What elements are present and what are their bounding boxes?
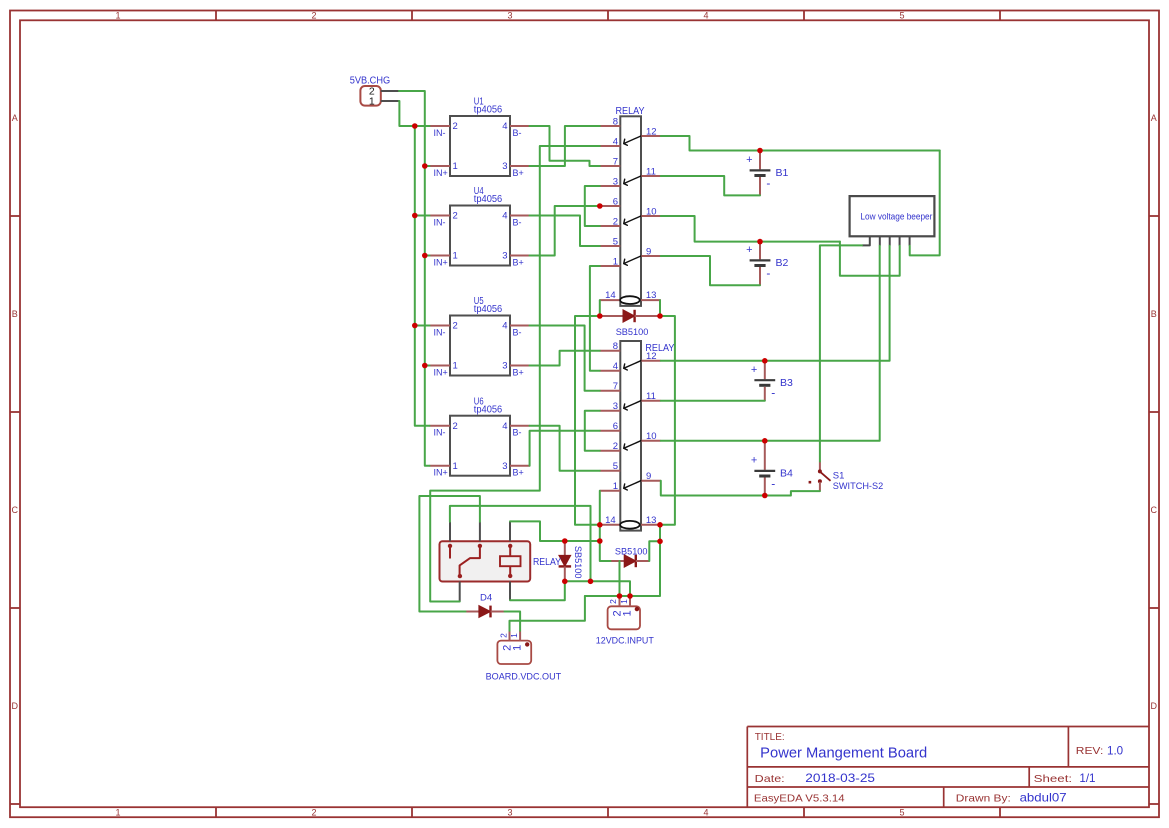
node junction — [762, 358, 768, 364]
svg-text:9: 9 — [646, 247, 651, 258]
pin 1 (beeper) — [862, 236, 870, 245]
wire IN+ branch U5 — [425, 365, 430, 367]
svg-text:1/1: 1/1 — [1079, 772, 1095, 785]
svg-text:2: 2 — [311, 807, 316, 817]
pin 14 (RELAY1) — [600, 299, 621, 301]
node junction — [762, 493, 768, 499]
svg-text:10: 10 — [646, 207, 657, 218]
wire 12VDC pin2 to diode2 anode — [619, 561, 621, 596]
pin 12 (RELAY2) — [641, 360, 661, 362]
wire 12V feed to BOARD pin2 — [510, 596, 585, 631]
svg-text:EasyEDA V5.3.14: EasyEDA V5.3.14 — [754, 793, 845, 805]
svg-text:11: 11 — [646, 167, 656, 178]
pin 3 B+ (U1) — [510, 165, 530, 167]
wire IN- branch U4 — [415, 215, 430, 217]
wire B2+ to beeper pin4 — [840, 242, 900, 276]
svg-text:IN-: IN- — [434, 428, 446, 438]
svg-text:6: 6 — [613, 197, 618, 208]
node junction — [597, 203, 603, 209]
svg-text:-: - — [771, 386, 775, 400]
svg-text:4: 4 — [703, 807, 708, 817]
svg-text:4: 4 — [502, 211, 507, 222]
svg-text:B: B — [1151, 309, 1157, 319]
svg-text:tp4056: tp4056 — [474, 404, 503, 415]
svg-text:4: 4 — [613, 361, 618, 372]
svg-text:tp4056: tp4056 — [474, 194, 503, 205]
wire 5VB.CHG pin2 to IN+ rail — [399, 91, 430, 466]
pin 5 (beeper) — [909, 236, 911, 246]
svg-text:IN+: IN+ — [434, 258, 448, 268]
svg-text:B1: B1 — [776, 167, 789, 179]
pin 6 (RELAY2) — [600, 430, 621, 432]
pin 4 B- (U5) — [510, 325, 530, 327]
battery B1 — [759, 151, 761, 170]
pin 4 (RELAY2) — [600, 370, 621, 372]
connector 12VDC.INPUT — [608, 606, 640, 629]
wire relay1 pin1 to relay2 pin4 — [590, 266, 600, 371]
svg-text:6: 6 — [613, 421, 618, 432]
pin 10 (RELAY2) — [641, 440, 661, 442]
pin 1 IN+ (U5) — [430, 365, 451, 367]
svg-text:1: 1 — [453, 251, 458, 262]
coil ellipse (RELAY2) — [620, 521, 640, 529]
svg-text:B-: B- — [513, 428, 522, 438]
svg-text:3: 3 — [502, 461, 507, 472]
wire U1 B+ to relay1 pin8 — [530, 126, 600, 166]
svg-text:+: + — [746, 244, 752, 256]
svg-text:B+: B+ — [513, 168, 524, 178]
svg-text:7: 7 — [613, 381, 618, 392]
wire relay module pin1 up — [450, 506, 591, 581]
node junction — [412, 323, 418, 329]
IC U1 tp4056 — [450, 116, 510, 176]
switch arrow pin 11 (RELAY2) — [624, 401, 641, 410]
relay bottom pin 5 — [509, 582, 511, 601]
svg-text:1: 1 — [115, 807, 120, 817]
switch arrow pin 12 (RELAY2) — [624, 361, 641, 370]
pin 3 B+ (U4) — [510, 255, 530, 257]
wire IN+ branch U4 — [425, 255, 430, 257]
node junction — [757, 148, 763, 154]
node junction — [757, 239, 763, 245]
svg-text:3: 3 — [502, 161, 507, 172]
svg-text:3: 3 — [502, 251, 507, 262]
svg-text:3: 3 — [502, 361, 507, 372]
pin 2 (RELAY2) — [600, 450, 621, 452]
switch arrow pin 12 (RELAY1) — [624, 136, 641, 145]
svg-text:3: 3 — [613, 401, 618, 412]
svg-text:B4: B4 — [780, 468, 793, 480]
battery B3 — [764, 361, 766, 379]
connector RELAY header 1 — [620, 116, 641, 306]
svg-text:B: B — [12, 309, 18, 319]
svg-text:3: 3 — [507, 807, 512, 817]
pin 3 B+ (U6) — [510, 465, 530, 467]
node junction — [588, 579, 594, 585]
svg-text:3: 3 — [507, 11, 512, 21]
svg-text:8: 8 — [613, 341, 618, 352]
pin 9 (RELAY1) — [641, 255, 661, 257]
IC U4 tp4056 — [450, 206, 510, 266]
wire relay1 pin10 to B2+ — [661, 216, 840, 242]
pin 1 (BOARD.VDC.OUT) — [519, 631, 521, 641]
pin 10 (RELAY1) — [641, 215, 661, 217]
pin 1 (5VB.CHG) — [381, 100, 399, 102]
svg-text:4: 4 — [502, 321, 507, 332]
pin 4 B- (U4) — [510, 215, 530, 217]
svg-text:Date:: Date: — [755, 773, 785, 785]
pin 8 (RELAY1) — [600, 125, 621, 127]
wire beeper pin1 to S1 — [820, 245, 862, 461]
diode SB5100 (vertical) — [564, 541, 566, 555]
switch arrow pin 10 (RELAY2) — [624, 441, 641, 450]
svg-text:-: - — [766, 176, 770, 190]
node junction — [422, 253, 428, 259]
diode D4 — [466, 611, 479, 613]
svg-text:B+: B+ — [513, 368, 524, 378]
wire IN- rail — [415, 126, 430, 426]
svg-text:1: 1 — [613, 481, 618, 492]
node junction — [657, 522, 663, 528]
svg-text:1: 1 — [369, 96, 375, 108]
wire relay1 pin14 to diode — [599, 300, 601, 316]
svg-text:B2: B2 — [776, 257, 789, 269]
svg-text:2: 2 — [608, 599, 618, 604]
svg-text:1: 1 — [453, 361, 458, 372]
wire U4 B+ to relay1 pin6 — [530, 206, 600, 256]
relay top pin 3 — [509, 522, 511, 541]
node junction — [617, 593, 623, 599]
pin 3 (beeper) — [889, 236, 891, 246]
wire relay2 pin13 junction down — [659, 525, 661, 542]
svg-text:IN+: IN+ — [434, 468, 448, 478]
pin 1 IN+ (U4) — [430, 255, 451, 257]
svg-text:SB5100: SB5100 — [616, 327, 649, 338]
svg-text:1: 1 — [512, 645, 524, 651]
pin 7 (RELAY1) — [600, 165, 621, 167]
svg-text:IN+: IN+ — [434, 168, 448, 178]
title block — [747, 726, 1149, 728]
wire 5VB.CHG pin1 to IN- rail — [399, 101, 430, 126]
wire U5 B+ to relay2 pin8 — [530, 351, 600, 366]
pin 13 (RELAY2) — [641, 524, 661, 526]
svg-text:5: 5 — [613, 237, 618, 248]
pin 3 (RELAY2) — [600, 410, 621, 412]
pin 2 (BOARD.VDC.OUT) — [509, 631, 511, 641]
pin 4 B- (U1) — [510, 125, 530, 127]
wire relay1 pin4 to relay module pin4 — [430, 146, 600, 602]
wire D4 to BOARD pin1 — [505, 612, 521, 631]
svg-text:5: 5 — [899, 11, 904, 21]
wire relay2 pin11 to B3- — [661, 400, 765, 402]
svg-text:1.0: 1.0 — [1107, 744, 1123, 757]
wire diode to relay2 pin14 — [575, 316, 600, 525]
wire B1+ to beeper pin5 — [910, 151, 940, 256]
pin 9 (RELAY2) — [641, 480, 661, 482]
svg-text:SB5100: SB5100 — [572, 546, 583, 579]
wire diode to relay2 pin13 — [660, 316, 675, 525]
svg-text:2: 2 — [453, 211, 458, 222]
svg-text:10: 10 — [646, 431, 657, 442]
svg-text:B-: B- — [513, 218, 522, 228]
svg-text:D4: D4 — [480, 593, 492, 604]
switch arrow pin 9 (RELAY1) — [624, 256, 641, 265]
pin 2 IN- (U4) — [430, 215, 451, 217]
wire relay1 pin13 down — [659, 300, 661, 316]
svg-text:5: 5 — [899, 807, 904, 817]
relay coil — [508, 544, 512, 548]
wire diode2 anode up to rail — [600, 541, 611, 561]
svg-text:4: 4 — [502, 121, 507, 132]
pin 7 (RELAY2) — [600, 390, 621, 392]
svg-text:2: 2 — [453, 321, 458, 332]
pin 2 IN- (U6) — [430, 425, 451, 427]
battery B2 — [759, 242, 761, 260]
wire U5 B- to relay2 pin7 — [530, 326, 600, 391]
svg-text:BOARD.VDC.OUT: BOARD.VDC.OUT — [486, 671, 562, 682]
svg-text:B+: B+ — [513, 258, 524, 268]
switch arrow pin 10 (RELAY1) — [624, 216, 641, 225]
svg-text:B3: B3 — [780, 377, 793, 389]
svg-text:2: 2 — [453, 121, 458, 132]
svg-text:13: 13 — [646, 290, 657, 301]
pin 8 (RELAY2) — [600, 350, 621, 352]
coil ellipse (RELAY1) — [620, 296, 640, 304]
wire 12V feed down — [585, 541, 660, 596]
svg-text:8: 8 — [613, 117, 618, 128]
IC U5 tp4056 — [450, 316, 510, 376]
svg-text:RELAY: RELAY — [533, 557, 561, 568]
switch arrow pin 9 (RELAY2) — [624, 481, 641, 490]
svg-text:1: 1 — [619, 599, 629, 604]
svg-text:2: 2 — [453, 421, 458, 432]
svg-text:C: C — [12, 505, 19, 515]
svg-text:TITLE:: TITLE: — [755, 732, 785, 743]
svg-text:12VDC.INPUT: 12VDC.INPUT — [596, 635, 654, 646]
wire relay2 pin1 down — [599, 491, 601, 525]
svg-text:B-: B- — [513, 328, 522, 338]
pin 1 (RELAY2) — [600, 490, 621, 492]
wire U4 B- to relay1 pin5 — [530, 216, 600, 247]
svg-text:SWITCH-S2: SWITCH-S2 — [833, 481, 883, 492]
svg-text:13: 13 — [646, 515, 657, 526]
svg-text:11: 11 — [646, 391, 656, 402]
pin 12 (RELAY1) — [641, 135, 661, 137]
IC U6 tp4056 — [450, 416, 510, 476]
svg-text:4: 4 — [703, 11, 708, 21]
svg-text:14: 14 — [605, 515, 616, 526]
pin 3 B+ (U5) — [510, 365, 530, 367]
connector 5VB.CHG — [360, 86, 380, 106]
pin 2 IN- (U1) — [430, 125, 451, 127]
pin 2 (5VB.CHG) — [381, 90, 399, 92]
svg-text:IN-: IN- — [434, 328, 446, 338]
wire IN- branch U5 — [415, 325, 430, 327]
svg-text:3: 3 — [613, 177, 618, 188]
svg-text:9: 9 — [646, 471, 651, 482]
svg-text:Drawn By:: Drawn By: — [956, 793, 1011, 805]
diode SB5100 (upper) — [600, 315, 623, 317]
svg-text:1: 1 — [453, 461, 458, 472]
connector BOARD.VDC.OUT — [497, 641, 531, 664]
svg-text:+: + — [746, 154, 752, 166]
svg-text:5: 5 — [613, 461, 618, 472]
pin 1 IN+ (U1) — [430, 165, 451, 167]
node junction — [562, 538, 568, 544]
pin 11 (RELAY2) — [641, 400, 661, 402]
svg-text:1: 1 — [613, 257, 618, 268]
svg-text:RELAY: RELAY — [616, 106, 645, 117]
svg-text:tp4056: tp4056 — [474, 105, 503, 116]
switch S1 SWITCH-S2 — [819, 462, 821, 471]
wire coil top rail — [510, 521, 600, 541]
node junction — [597, 522, 603, 528]
node junction — [412, 123, 418, 129]
svg-text:D: D — [12, 701, 19, 711]
svg-text:Low voltage beeper: Low voltage beeper — [860, 211, 932, 221]
module Low voltage beeper — [850, 196, 935, 236]
svg-text:1: 1 — [509, 633, 519, 638]
svg-text:14: 14 — [605, 290, 616, 301]
pin 4 B- (U6) — [510, 425, 530, 427]
svg-text:C: C — [1151, 505, 1158, 515]
svg-text:2: 2 — [613, 217, 618, 228]
pin 1 (12VDC.INPUT) — [629, 598, 631, 607]
wire relay module pin2 to D4 — [419, 496, 480, 612]
node junction — [422, 163, 428, 169]
node junction — [762, 438, 768, 444]
wire relay2 pin10 to B4+ and beeper pin2 — [661, 246, 880, 441]
pin 2 IN- (U5) — [430, 325, 451, 327]
svg-text:B+: B+ — [513, 468, 524, 478]
node junction — [562, 579, 568, 585]
node junction — [657, 313, 663, 319]
pin 5 (RELAY2) — [600, 470, 621, 472]
wire rail to relay2 pin14 node — [599, 525, 601, 541]
svg-text:2: 2 — [498, 633, 508, 638]
pin 3 (RELAY1) — [600, 185, 621, 187]
pin 6 (RELAY1) — [600, 205, 621, 207]
svg-text:4: 4 — [502, 421, 507, 432]
diode SB5100 (lower) — [611, 560, 625, 562]
svg-text:IN-: IN- — [434, 218, 446, 228]
svg-text:1: 1 — [453, 161, 458, 172]
svg-text:2: 2 — [613, 441, 618, 452]
svg-text:A: A — [12, 113, 18, 123]
svg-text:7: 7 — [613, 157, 618, 168]
svg-text:1: 1 — [622, 610, 634, 616]
svg-text:B-: B- — [513, 128, 522, 138]
node junction — [627, 593, 633, 599]
svg-text:+: + — [751, 455, 757, 467]
svg-text:12: 12 — [646, 351, 657, 362]
pin 1 (RELAY1) — [600, 265, 621, 267]
pin 1 IN+ (U6) — [430, 465, 451, 467]
wire rail to 12VDC pin1 — [565, 581, 630, 596]
svg-text:Power Mangement Board: Power Mangement Board — [760, 745, 927, 761]
svg-text:REV:: REV: — [1076, 746, 1104, 757]
svg-text:1: 1 — [115, 11, 120, 21]
svg-text:D: D — [1151, 701, 1158, 711]
relay bottom pin 4 — [459, 582, 461, 602]
wire relay1 pin11 to B1- — [661, 176, 760, 195]
connector RELAY header 2 — [620, 341, 641, 531]
node junction — [657, 539, 663, 545]
pin 5 (RELAY1) — [600, 245, 621, 247]
wire relay2 pin3 to pin2 — [585, 411, 600, 451]
wire coil bottom loop — [510, 581, 565, 600]
wire diode2 cathode up — [649, 541, 660, 561]
svg-text:tp4056: tp4056 — [474, 304, 503, 315]
relay module (highlighted) — [440, 541, 531, 581]
wire relay2 pin12 to B3+ and beeper pin3 — [661, 246, 890, 361]
wire relay1 pin3 to pin2 — [585, 186, 600, 226]
svg-text:4: 4 — [613, 137, 618, 148]
svg-text:abdul07: abdul07 — [1020, 792, 1067, 805]
node junction — [597, 538, 603, 544]
svg-text:2018-03-25: 2018-03-25 — [805, 772, 875, 785]
wire U1 B- to relay1 pin7 — [530, 126, 600, 166]
battery B4 — [764, 441, 766, 470]
svg-text:+: + — [751, 364, 757, 376]
svg-text:12: 12 — [646, 127, 657, 138]
svg-text:A: A — [1151, 113, 1157, 123]
wire U6 B- to relay2 pin5 — [530, 426, 600, 471]
pin 4 (RELAY1) — [600, 145, 621, 147]
pin 2 (12VDC.INPUT) — [619, 598, 621, 607]
pin 11 (RELAY1) — [641, 175, 661, 177]
svg-text:IN-: IN- — [434, 128, 446, 138]
svg-text:2: 2 — [311, 11, 316, 21]
pin 14 (RELAY2) — [600, 524, 621, 526]
pin 4 (beeper) — [899, 236, 901, 246]
pin 13 (RELAY1) — [641, 299, 661, 301]
svg-text:Sheet:: Sheet: — [1034, 773, 1073, 785]
wire U6 B+ to relay2 pin6 — [530, 431, 600, 466]
relay top pin 1 — [449, 522, 451, 541]
node junction — [422, 363, 428, 369]
svg-text:-: - — [771, 476, 775, 490]
wire relay2 pin9 to B4- to S1 — [661, 481, 820, 496]
node junction — [597, 313, 603, 319]
node junction — [412, 213, 418, 219]
svg-text:SB5100: SB5100 — [615, 547, 648, 558]
relay top pin 2 — [479, 522, 481, 541]
svg-text:IN+: IN+ — [434, 368, 448, 378]
wire relay1 pin9 to B2- — [661, 256, 760, 285]
relay internal contacts — [448, 544, 452, 548]
pin 2 (RELAY1) — [600, 225, 621, 227]
switch arrow pin 11 (RELAY1) — [624, 176, 641, 185]
pin 2 (beeper) — [879, 236, 881, 246]
wire IN+ branch U1 — [425, 165, 430, 167]
svg-text:-: - — [766, 266, 770, 280]
wire relay1 pin12 to B1+ — [661, 136, 940, 151]
